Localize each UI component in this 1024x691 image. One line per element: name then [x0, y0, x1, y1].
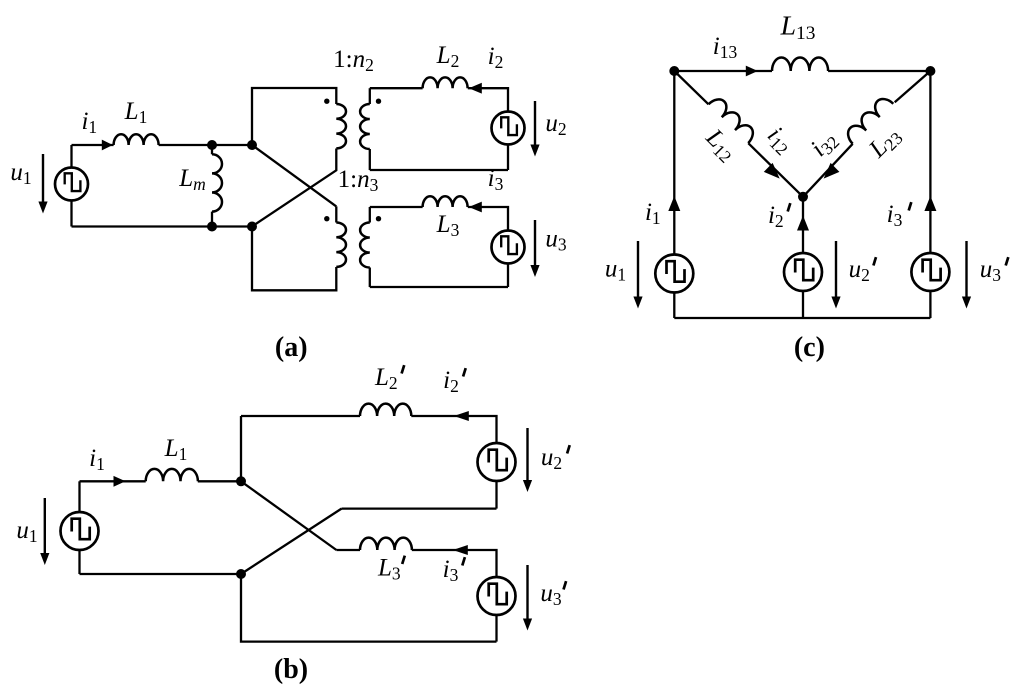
svg-text:(c): (c) [794, 332, 825, 363]
center node dot (c) [798, 192, 808, 202]
wire u2' bottom lead (b) [495, 481, 497, 509]
wire u1 bottom lead (c) [673, 293, 675, 319]
wire L2 to top right corner (a) [468, 88, 508, 111]
wire top left horizontal u1 to L1 (a) [72, 144, 114, 146]
wire u1 top lead (b) [78, 481, 80, 512]
voltage source u1 (b) [61, 512, 99, 550]
wire L1 to node Lm (a) [159, 144, 252, 146]
wire L3 to corner (a) [468, 207, 508, 231]
svg-text:(b): (b) [274, 654, 308, 685]
wire bottom horizontal u1 to node 2 (b) [80, 573, 242, 575]
voltage source u1 (c) [655, 255, 693, 293]
wire L3' to corner (b) [412, 550, 497, 577]
polarity dot secondary 1:n3 (a) [376, 216, 381, 221]
wire secondary top loop upper left (a) [370, 87, 423, 89]
wire bottom left horizontal (a) [72, 225, 253, 227]
node 2 dot (b) [236, 569, 246, 579]
inductor L12 coil on diagonal (c) [709, 95, 758, 143]
voltage source u2 (a) [492, 112, 525, 145]
current arrow i12 (c) [764, 163, 780, 179]
node dot Lm top (a) [207, 140, 217, 150]
wire u2' bottom lead (c) [802, 291, 804, 318]
magnetizing inductor Lm bottom lead (a) [211, 212, 213, 227]
node B dot (c) [925, 66, 935, 76]
voltage arrow u2 (a) [534, 101, 536, 146]
node A dot (c) [669, 66, 679, 76]
wire node B to L23 coil (c) [895, 71, 931, 102]
ideal transformer 1:n2 primary frame top (a) [252, 88, 336, 145]
wire right vertical branch (c) [929, 71, 931, 253]
voltage source u2' (b) [478, 443, 516, 481]
wire node 1 riser (b) [240, 416, 242, 481]
voltage source u2' (c) [784, 253, 822, 291]
voltage arrow u3' (b) [526, 565, 528, 620]
node dot Lm bottom (a) [207, 222, 217, 232]
ideal transformer 1:n2 secondary upper lead (a) [369, 88, 371, 104]
wire bottom horizontal (c) [674, 317, 930, 319]
wire secondary top loop bottom (a) [370, 169, 508, 171]
ideal transformer 1:n2 secondary lower lead (a) [369, 149, 371, 170]
current arrow i1 (a) [102, 140, 113, 151]
wire u2' return horizontal (b) [342, 507, 497, 509]
wire u2 bottom lead (a) [507, 145, 509, 171]
wire L3' branch left (b) [336, 549, 360, 551]
wire top horizontal node A to L13 (c) [674, 70, 772, 72]
voltage arrow u1 (b) [44, 498, 46, 554]
current arrow i3' upward (c) [924, 196, 936, 211]
figure (c): star-delta equivalent inductor network [605, 11, 1008, 364]
voltage arrow u2' (b) [526, 428, 528, 481]
ideal transformer 1:n2 secondary winding (a) [360, 104, 370, 149]
current arrow i1 (b) [114, 476, 126, 487]
inductor L1 coil (b) [146, 469, 198, 481]
inductor L3 coil (a) [423, 196, 468, 207]
polarity dot secondary 1:n2 (a) [376, 99, 381, 104]
wire secondary bottom loop bottom (a) [370, 286, 508, 288]
figure (b): equivalent circuit with crossed windings [16, 364, 569, 685]
ideal transformer 1:n3 primary upper lead (a) [335, 206, 337, 222]
voltage arrow u3' (c) [965, 241, 967, 298]
inductor L2 coil (a) [423, 77, 468, 88]
crossing wire node 1 to L3' branch (b) [241, 481, 336, 550]
ideal transformer 1:n3 secondary winding (a) [360, 223, 370, 268]
inductor L1 coil (a) [114, 134, 159, 145]
current arrow i1 upward (c) [668, 196, 680, 211]
current arrow i2 (a) [469, 83, 482, 94]
current arrow i2' (b) [454, 411, 469, 421]
current arrow i2' upward (c) [797, 216, 809, 231]
node dot primary bottom (a) [247, 222, 257, 232]
svg-text:(a): (a) [275, 332, 308, 363]
wire top horizontal u1 to L1 (b) [80, 480, 146, 482]
voltage source u3' (c) [911, 253, 949, 291]
polarity dot primary 1:n2 (a) [324, 99, 329, 104]
ideal transformer 1:n2 primary winding (a) [336, 104, 346, 148]
wire center vertical branch (c) [802, 197, 804, 253]
inductor L23 coil on diagonal (c) [844, 95, 894, 144]
magnetizing inductor Lm coil (a) [212, 154, 222, 211]
ideal transformer 1:n3 secondary upper lead (a) [369, 207, 371, 223]
wire secondary bottom loop upper left (a) [370, 206, 423, 208]
wire L13 to node B (c) [828, 70, 930, 72]
wire L12 to center node with arrow (c) [748, 143, 803, 197]
voltage arrow u3 (a) [534, 220, 536, 266]
wire L23 to center node with arrow (c) [803, 144, 853, 197]
polarity dot primary 1:n3 (a) [324, 216, 329, 221]
wire u3' bottom lead (c) [929, 291, 931, 318]
voltage arrow u2' (c) [835, 241, 837, 298]
wire bottom loop return (b) [241, 574, 497, 642]
voltage source u1 (a) [55, 168, 88, 201]
wire L2' to corner (b) [411, 416, 496, 443]
ideal transformer 1:n3 primary winding (a) [336, 223, 346, 267]
node dot primary top (a) [247, 140, 257, 150]
node 1 dot (b) [236, 476, 246, 486]
wire L1 to node 1 (b) [198, 480, 241, 482]
wire u3' bottom lead (b) [495, 615, 497, 642]
voltage arrow u1 (a) [42, 154, 44, 203]
ideal transformer 1:n3 primary frame bottom (a) [252, 227, 336, 291]
ideal transformer 1:n3 secondary lower lead (a) [369, 268, 371, 288]
wire u3 bottom lead (a) [507, 264, 509, 288]
inductor L2' coil (b) [360, 404, 411, 416]
wire u1 top lead (a) [70, 145, 72, 168]
voltage source u3' (b) [478, 577, 516, 615]
magnetizing inductor Lm top lead (a) [211, 145, 213, 154]
wire top loop left (b) [241, 415, 360, 417]
ideal transformer 1:n2 primary lower lead to crossing (a) [252, 149, 336, 227]
current arrow i13 (c) [746, 66, 758, 77]
inductor L3' coil (b) [360, 538, 412, 550]
current arrow i3 (a) [469, 202, 482, 213]
wire node A to L12 coil (c) [674, 71, 708, 104]
current arrow i32 (c) [824, 163, 840, 179]
wire u1 bottom lead (b) [78, 550, 80, 574]
voltage source u3 (a) [492, 231, 525, 264]
figure (a): coupled-inductor model with ideal transformers [10, 42, 567, 363]
crossing wire to node 2 (b) [241, 509, 342, 574]
current arrow i3' (b) [453, 545, 468, 555]
inductor L13 coil (c) [772, 57, 828, 71]
voltage arrow u1 (c) [637, 241, 639, 298]
wire u1 bottom lead (a) [70, 201, 72, 227]
crossing wire node top to 1:n3 primary (a) [252, 145, 336, 206]
wire left vertical branch (c) [673, 71, 675, 255]
